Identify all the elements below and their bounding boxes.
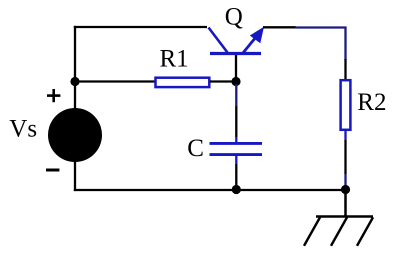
wire R1 left — [75, 80, 156, 82]
wire bottom horizontal — [74, 189, 346, 191]
node junction dot right — [341, 185, 350, 194]
resistor R2 — [341, 80, 351, 130]
wire cap top black — [235, 106, 237, 137]
node junction dot at base — [231, 77, 240, 86]
voltage source Vs — [48, 108, 102, 162]
svg-text:R1: R1 — [160, 46, 189, 73]
minus sign — [46, 169, 59, 172]
wire emitter to top black — [263, 26, 296, 28]
wire cap bottom black — [235, 164, 237, 186]
svg-text:C: C — [187, 135, 204, 162]
wire top-right navy — [295, 28, 346, 61]
node junction dot left — [70, 77, 79, 86]
plus sign — [47, 89, 60, 102]
wire cap top navy stub — [235, 84, 237, 106]
wire R1 right — [210, 80, 234, 82]
wire R2 to node black — [344, 140, 346, 174]
capacitor C — [210, 137, 263, 164]
wire left vertical — [74, 26, 76, 110]
transistor Q — [209, 27, 265, 54]
wire base vertical — [235, 54, 237, 78]
wire source bottom — [74, 160, 76, 191]
node junction dot mid-bottom — [232, 185, 241, 194]
wire navy stub above right node — [344, 174, 346, 187]
resistor R1 — [156, 78, 210, 87]
ground — [304, 190, 373, 246]
wire down to R2 — [344, 59, 346, 80]
wire top-left horizontal — [74, 26, 207, 28]
svg-text:R2: R2 — [357, 89, 386, 116]
svg-text:Vs: Vs — [9, 116, 37, 143]
svg-text:Q: Q — [225, 4, 243, 31]
R2 bottom lead blue stub — [344, 130, 346, 140]
